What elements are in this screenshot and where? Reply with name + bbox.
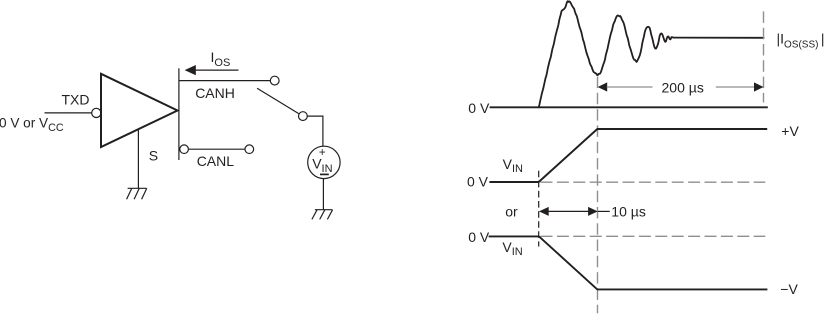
wire output bus — [178, 68, 180, 160]
wire CANH — [180, 80, 271, 82]
dimension 200 us right shaft — [716, 86, 754, 88]
wire S pin — [137, 130, 139, 189]
svg-text:0 V or VCC: 0 V or VCC — [0, 116, 64, 134]
dimension 10 us shaft — [548, 210, 588, 212]
CANL bubble on bus — [180, 145, 189, 154]
switch S1 blade — [257, 88, 299, 113]
current arrow IOS — [185, 65, 239, 75]
dashed 0 V reference (rising ramp) — [541, 181, 766, 183]
dimension 10 us left arrowhead — [539, 207, 549, 216]
dimension 10 us extension — [598, 210, 610, 212]
svg-text:CANL: CANL — [197, 153, 235, 169]
ground (VIN chassis ground) — [312, 210, 333, 220]
wire switch to VIN source — [307, 116, 323, 146]
VIN falling ramp to -V — [539, 236, 767, 289]
wire CANL — [188, 148, 245, 150]
driver amplifier U1 (triangle) — [101, 74, 178, 147]
CANL terminal circle — [245, 145, 254, 154]
svg-text:TXD: TXD — [62, 92, 90, 108]
svg-text:0 V: 0 V — [468, 100, 490, 116]
dimension 10 us right arrowhead — [588, 207, 598, 216]
dashed timing line at steady state — [763, 11, 765, 102]
svg-text:+V: +V — [781, 123, 799, 139]
svg-text:|IOS(SS)|: |IOS(SS)| — [777, 30, 824, 50]
wire TXD input — [45, 112, 92, 114]
dimension 200 us right arrowhead — [754, 82, 764, 91]
svg-text:or: or — [505, 204, 518, 220]
ground (S pin chassis ground) — [127, 188, 147, 199]
svg-text:200 µs: 200 µs — [662, 79, 704, 95]
wire VIN to ground — [322, 179, 324, 210]
svg-text:0 V: 0 V — [468, 229, 490, 245]
dashed 0 V reference (falling ramp) — [541, 235, 766, 237]
0 V wire (rising ramp) — [489, 181, 538, 183]
svg-text:10 µs: 10 µs — [611, 203, 646, 219]
svg-text:VIN: VIN — [503, 156, 523, 175]
inverter input bubble — [92, 108, 101, 117]
svg-text:IOS: IOS — [211, 49, 231, 69]
dashed timing line at ramp start — [538, 171, 540, 247]
svg-text:S: S — [149, 147, 158, 163]
voltage source VIN circle — [308, 146, 340, 178]
dimension 200 us left arrowhead — [598, 82, 608, 91]
current waveform trace (damped oscillation) — [539, 1, 764, 107]
0 V wire (falling ramp) — [489, 235, 539, 237]
dashed timing line at settle point — [597, 77, 599, 314]
svg-text:VIN: VIN — [502, 239, 522, 258]
svg-text:0 V: 0 V — [467, 173, 489, 189]
switch terminal circle — [299, 112, 308, 121]
VIN minus sign — [320, 173, 329, 175]
dimension 200 us left shaft — [607, 86, 653, 88]
VIN rising ramp to +V — [539, 129, 768, 182]
svg-text:−V: −V — [780, 281, 798, 297]
CANH terminal circle — [270, 76, 279, 85]
svg-text:CANH: CANH — [195, 85, 235, 101]
current waveform baseline wire — [490, 106, 768, 108]
